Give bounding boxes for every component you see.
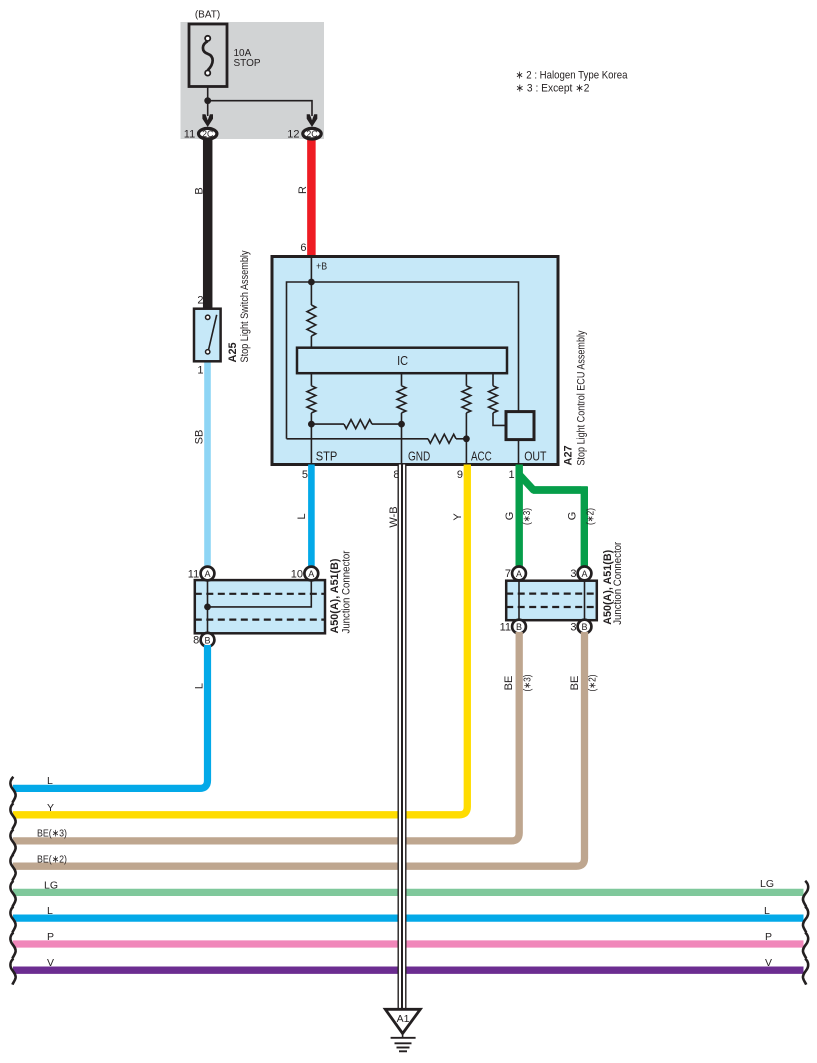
svg-text:9: 9	[457, 469, 463, 481]
svg-text:+B: +B	[316, 261, 327, 272]
resistor R5 (IC to output stage)	[492, 373, 494, 386]
svg-text:ACC: ACC	[471, 448, 492, 463]
junction dot	[204, 604, 211, 611]
wire G green with branch	[516, 465, 523, 568]
svg-text:B: B	[581, 622, 587, 632]
svg-text:G: G	[567, 512, 579, 521]
svg-text:L: L	[47, 775, 53, 787]
svg-text:STP: STP	[316, 448, 338, 463]
svg-text:A: A	[204, 569, 210, 579]
resistor R4 (IC to ACC)	[465, 373, 467, 386]
resistor R1 (+B to IC)	[310, 282, 312, 305]
junction dot STP	[308, 421, 315, 428]
svg-text:R: R	[297, 186, 309, 194]
wire square to OUT pin	[518, 440, 520, 465]
svg-text:12: 12	[287, 128, 299, 140]
svg-text:2: 2	[197, 295, 203, 307]
wire break squiggle	[10, 777, 15, 803]
wire BE(*3) tan	[13, 632, 519, 841]
svg-text:Stop Light Switch Assembly: Stop Light Switch Assembly	[239, 250, 251, 362]
IC block	[297, 348, 507, 374]
svg-text:IC: IC	[397, 353, 408, 368]
internal wire +B down	[310, 257, 312, 283]
svg-text:B: B	[516, 622, 522, 632]
svg-text:Junction Connector: Junction Connector	[612, 542, 624, 625]
terminal A pin 7	[512, 567, 526, 581]
svg-text:Y: Y	[452, 513, 464, 521]
svg-text:LG: LG	[760, 878, 774, 890]
svg-text:BE(∗3): BE(∗3)	[37, 828, 67, 840]
wire P pink	[13, 940, 804, 947]
wire Y yellow	[13, 465, 467, 815]
svg-text:V: V	[47, 957, 54, 969]
internal wire pin3-pin3	[584, 567, 586, 633]
wire SB light blue	[204, 361, 211, 568]
wire BE(*2) tan	[13, 632, 585, 866]
svg-text:L: L	[194, 683, 206, 689]
junction connector A50/A51 right box	[506, 581, 597, 621]
wire break squiggles P	[10, 932, 15, 958]
wire break squiggles V	[10, 959, 15, 985]
switch lever	[209, 315, 217, 350]
wire break squiggles LG	[10, 881, 15, 907]
dashed bus line	[195, 618, 325, 620]
svg-text:8: 8	[193, 635, 199, 647]
svg-text:V: V	[765, 957, 772, 969]
resistor R3 (IC to GND)	[401, 373, 403, 386]
svg-text:2C: 2C	[306, 129, 318, 139]
output transistor square	[506, 412, 534, 440]
svg-text:2C: 2C	[202, 129, 214, 139]
connector oval 2C pin 11	[199, 128, 217, 139]
svg-text:B: B	[194, 187, 206, 194]
fuse element	[203, 41, 213, 70]
dashed bus line	[506, 592, 597, 594]
svg-text:LG: LG	[44, 879, 58, 891]
svg-text:(∗3): (∗3)	[523, 675, 534, 692]
wire fuse to junction	[207, 87, 209, 116]
svg-text:A50(A), A51(B): A50(A), A51(B)	[329, 558, 341, 633]
internal wire pin11-pin8	[207, 567, 209, 646]
svg-text:(BAT): (BAT)	[195, 9, 220, 20]
dashed bus line	[195, 593, 325, 595]
svg-text:GND: GND	[408, 448, 430, 463]
bottom loop wire with resistor R7	[287, 438, 429, 440]
terminal B pin 8	[201, 633, 215, 647]
svg-text:P: P	[47, 931, 54, 943]
terminal arrow pin 12	[307, 114, 318, 127]
svg-text:BE: BE	[503, 676, 515, 691]
svg-text:L: L	[47, 905, 53, 917]
svg-text:A: A	[516, 569, 522, 579]
svg-text:L: L	[764, 905, 770, 917]
terminal A pin 10	[304, 567, 318, 581]
svg-text:Y: Y	[47, 802, 54, 814]
fuse 10A STOP box	[189, 24, 227, 87]
svg-text:1: 1	[508, 469, 514, 481]
svg-text:B: B	[204, 635, 210, 645]
dashed bus line	[506, 606, 597, 608]
svg-text:G: G	[504, 512, 516, 521]
svg-text:∗ 3 : Except ∗2: ∗ 3 : Except ∗2	[516, 83, 590, 95]
wire L blue (STP)	[308, 465, 315, 568]
wire break squiggles L	[10, 907, 15, 933]
svg-text:A: A	[581, 569, 587, 579]
svg-text:P: P	[765, 931, 772, 943]
terminal arrow pin 11	[202, 114, 213, 127]
svg-text:A1: A1	[397, 1013, 410, 1025]
wire break squiggle	[10, 803, 15, 829]
wire junction to pin 12	[208, 101, 312, 116]
svg-text:Junction Connector: Junction Connector	[341, 550, 353, 633]
svg-text:SB: SB	[194, 430, 206, 445]
ground triangle A1	[385, 1009, 420, 1033]
internal wire pin7-pin11	[518, 567, 520, 633]
connector oval 2C pin 12	[303, 128, 321, 139]
svg-text:(∗2): (∗2)	[588, 675, 599, 692]
svg-text:A: A	[308, 569, 314, 579]
wire W-B white with black tracer	[398, 465, 407, 1010]
terminal A pin 3	[578, 567, 592, 581]
svg-text:L: L	[296, 513, 308, 519]
svg-text:(∗3): (∗3)	[522, 508, 533, 525]
wire R red	[307, 136, 316, 258]
svg-text:A25: A25	[227, 342, 239, 362]
svg-text:3: 3	[570, 568, 576, 580]
ground stem	[402, 1034, 404, 1039]
svg-text:1: 1	[197, 365, 203, 377]
wire LG light green	[13, 889, 804, 896]
svg-text:11: 11	[184, 128, 195, 140]
wire break squiggle	[10, 855, 15, 881]
svg-text:∗ 2 : Halogen Type Korea: ∗ 2 : Halogen Type Korea	[516, 70, 629, 82]
terminal B pin 3	[578, 620, 592, 634]
terminal B pin 11	[512, 620, 526, 634]
horizontal resistor R6 (STP-GND)	[311, 423, 344, 425]
junction connector A50/A51 left box	[195, 580, 325, 633]
svg-text:OUT: OUT	[524, 448, 546, 463]
svg-text:7: 7	[505, 568, 511, 580]
wire V violet	[13, 967, 804, 974]
svg-text:W-B: W-B	[388, 506, 400, 527]
terminal A pin 11	[201, 567, 215, 581]
svg-text:BE(∗2): BE(∗2)	[37, 854, 67, 866]
svg-text:6: 6	[300, 242, 306, 254]
ground bars	[391, 1037, 416, 1039]
svg-text:A27: A27	[563, 445, 575, 465]
wire L blue full width	[13, 914, 804, 921]
wire B black	[203, 136, 213, 310]
power source shaded block	[181, 22, 325, 139]
switch A25 box	[194, 309, 221, 362]
svg-text:11: 11	[500, 621, 511, 633]
svg-text:STOP: STOP	[234, 58, 261, 69]
junction dot GND	[398, 421, 405, 428]
internal wire pin10	[208, 567, 312, 607]
svg-text:Stop Light Control ECU Assembl: Stop Light Control ECU Assembly	[576, 330, 588, 465]
junction dot +B	[308, 279, 315, 286]
svg-text:10: 10	[291, 568, 303, 580]
svg-text:3: 3	[570, 621, 576, 633]
ECU A27 box	[272, 257, 558, 465]
wire break squiggle	[10, 829, 15, 855]
svg-text:11: 11	[188, 568, 199, 580]
wire L blue lower	[13, 645, 208, 788]
resistor R2 (IC to STP)	[310, 373, 312, 386]
junction dot	[204, 97, 211, 104]
internal loop wire	[287, 282, 519, 439]
junction dot ACC	[463, 435, 470, 442]
svg-text:5: 5	[302, 469, 308, 481]
svg-text:(∗2): (∗2)	[586, 508, 597, 525]
svg-text:BE: BE	[569, 676, 581, 691]
